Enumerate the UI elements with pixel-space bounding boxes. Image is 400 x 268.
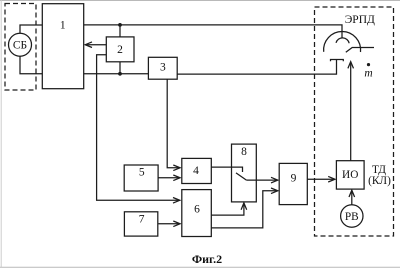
wire СБ top to block 1 <box>20 25 42 33</box>
wire block 2 bottom to node <box>119 62 121 74</box>
flow arrow to thruster <box>350 62 352 161</box>
scan border bottom <box>0 266 400 268</box>
block 8 <box>232 144 257 202</box>
wire block 1 to thruster anode <box>84 25 342 38</box>
wire block 3 to block 4 <box>167 79 180 168</box>
wire node to block 2 top <box>119 25 121 37</box>
block 6 <box>182 190 212 237</box>
block ИО <box>336 161 364 189</box>
wire block 4 into switch in block 8 <box>211 167 242 172</box>
svg-text:2: 2 <box>117 44 123 56</box>
block 4 <box>182 158 212 183</box>
scan border top <box>0 0 400 2</box>
svg-text:ИО: ИО <box>342 169 358 181</box>
svg-text:m: m <box>364 68 372 80</box>
svg-text:ЭРПД: ЭРПД <box>345 14 375 26</box>
solar battery circle СБ <box>9 33 32 56</box>
svg-text:РВ: РВ <box>345 211 359 223</box>
svg-text:3: 3 <box>160 61 166 73</box>
wire block 6 to block 8 bottom <box>211 203 244 215</box>
keeper electrode <box>346 48 374 53</box>
switch blade <box>236 173 246 180</box>
svg-text:8: 8 <box>241 146 247 158</box>
thruster envelope arc <box>324 31 361 52</box>
block 2 <box>106 37 134 62</box>
svg-text:Фиг.2: Фиг.2 <box>192 252 222 266</box>
block 7 <box>124 212 157 236</box>
svg-text:6: 6 <box>194 203 200 215</box>
cathode T <box>331 60 344 62</box>
arrow block 5 to block 4 <box>158 177 180 179</box>
ЭРПД dashed box <box>315 7 394 236</box>
arrow block 7 to block 6 <box>158 223 180 225</box>
wire block 1 to block 3 <box>84 73 149 75</box>
wire СБ bottom to block 1 <box>20 56 42 74</box>
svg-text:9: 9 <box>291 173 297 185</box>
wire РВ to ИО <box>351 191 353 205</box>
svg-text:(КЛ): (КЛ) <box>368 175 391 187</box>
svg-text:4: 4 <box>193 165 199 177</box>
valve circle РВ <box>341 205 363 227</box>
wire block 6 to block 9 <box>211 191 277 228</box>
node dot bottom <box>118 72 122 76</box>
svg-text:ТД: ТД <box>372 164 386 176</box>
node dot top <box>118 23 122 27</box>
arrow block 2 to block 1 <box>85 44 106 46</box>
m-dot dot <box>367 63 370 66</box>
svg-text:СБ: СБ <box>13 39 27 51</box>
wire block 9 to ИО <box>307 178 334 180</box>
block 3 <box>148 57 177 79</box>
block 9 <box>279 163 307 204</box>
wire block 3 to thruster cathode <box>177 60 336 75</box>
scan border left <box>0 0 2 268</box>
block 5 <box>124 165 158 191</box>
anode dome <box>336 38 349 43</box>
svg-text:7: 7 <box>139 214 145 226</box>
svg-text:5: 5 <box>139 167 145 179</box>
block 1 <box>42 4 83 89</box>
wire block 2 to block 6 <box>97 55 180 201</box>
svg-text:1: 1 <box>60 20 66 32</box>
solar battery dashed box <box>5 4 36 91</box>
wire switch to block 9 <box>246 179 277 181</box>
